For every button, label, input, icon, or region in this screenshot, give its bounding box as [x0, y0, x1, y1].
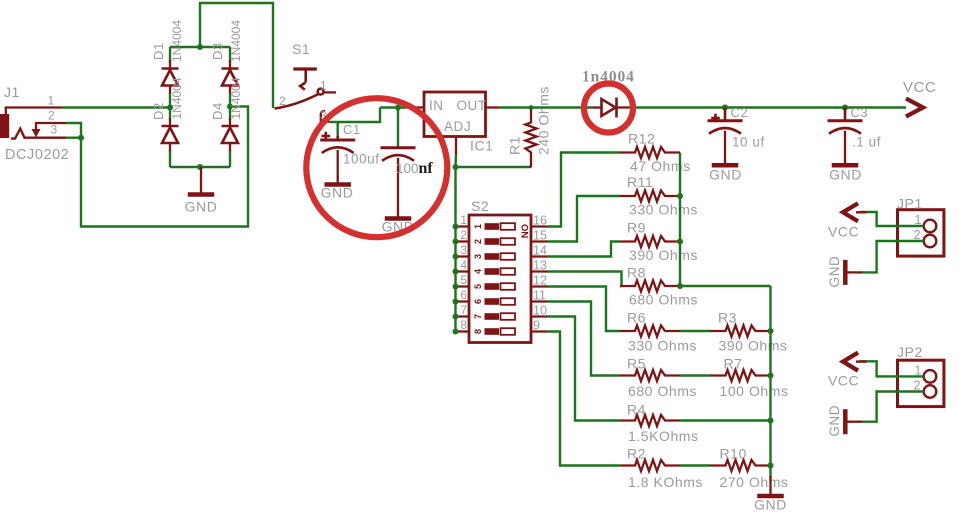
junction S2 pin 1 [453, 224, 459, 230]
DIP switch S2 box [469, 215, 531, 343]
svg-text:R10: R10 [720, 446, 747, 462]
J1 pin 2 [32, 123, 67, 137]
svg-text:5: 5 [460, 273, 467, 287]
wire S2 pin15 to R11 [548, 196, 621, 242]
JP2 pin 1 circle [924, 370, 937, 383]
diode D3 [222, 69, 239, 86]
svg-text:240 Ohms: 240 Ohms [536, 86, 552, 155]
svg-text:IC1: IC1 [470, 138, 493, 154]
svg-text:DCJ0202: DCJ0202 [5, 147, 69, 163]
svg-text:100nf: 100nf [396, 160, 433, 177]
svg-text:2: 2 [279, 94, 286, 108]
diode 1n4004 stubs [593, 106, 602, 108]
svg-text:GND: GND [827, 256, 842, 288]
S2 switch element 1 [473, 223, 515, 230]
S2 left pin 1 [456, 225, 470, 227]
J1 pin 3 [11, 129, 66, 139]
junction bridge left node [167, 105, 173, 111]
connector JP1 box [898, 210, 944, 256]
resistor R9 [620, 236, 680, 247]
resistor R6 [620, 325, 680, 336]
junction R11 right [677, 193, 683, 199]
svg-text:4: 4 [460, 258, 467, 272]
svg-text:1: 1 [320, 79, 327, 93]
S2 left pin 4 [456, 270, 470, 272]
IC1 OUT pin [486, 106, 501, 108]
ground below bridge [188, 167, 215, 195]
svg-text:C1: C1 [343, 122, 361, 137]
J1 pin 1 [6, 108, 63, 115]
wire to VCC [629, 106, 907, 108]
svg-text:1: 1 [48, 94, 55, 108]
junction bridge top node [197, 44, 203, 50]
ground JP2 [845, 409, 862, 434]
svg-text:10 uf: 10 uf [732, 135, 765, 150]
wire S2 pin9 to R2 [548, 332, 621, 466]
connector J1 body [0, 114, 9, 138]
svg-text:OUT: OUT [457, 98, 487, 113]
svg-text:ON: ON [519, 224, 530, 238]
wire [229, 151, 231, 167]
wire S1 pin3 to regulator input [330, 108, 380, 123]
ground below ladder [757, 476, 784, 496]
capacitor 100nf [381, 148, 416, 219]
junction R1 top [529, 105, 534, 110]
svg-text:16: 16 [533, 214, 547, 228]
annotation circle around capacitors [306, 98, 447, 237]
svg-text:1N4004: 1N4004 [229, 77, 243, 119]
svg-text:GND: GND [321, 185, 354, 201]
junction S2 pin 6 [453, 299, 459, 305]
svg-text:9: 9 [533, 319, 540, 333]
S2 right pin 12 [531, 285, 548, 287]
diode D3 lower stub [229, 86, 231, 95]
S2 switch element 8 [473, 328, 515, 335]
svg-text:GND: GND [829, 167, 862, 183]
wire J1 pin1 to bridge left node [63, 106, 170, 108]
junction R7 right [768, 373, 774, 379]
wire bridge top [170, 46, 230, 48]
diode D1 stub [169, 60, 171, 69]
svg-text:D3: D3 [210, 42, 225, 60]
diode D4 lower stub [229, 143, 231, 152]
wire [169, 47, 171, 62]
wire VCC to JP2 pin1 [860, 361, 924, 376]
junction bridge right node [227, 104, 233, 110]
svg-text:47 Ohms: 47 Ohms [630, 158, 691, 174]
wire ADJ to R1 bottom [456, 166, 532, 168]
svg-text:270 Ohms: 270 Ohms [720, 474, 789, 490]
wire bottom loop to bridge right node [81, 107, 248, 227]
svg-text:8: 8 [460, 318, 467, 332]
svg-text:4: 4 [473, 269, 483, 274]
svg-text:8: 8 [473, 329, 483, 334]
svg-text:JP1: JP1 [897, 196, 923, 212]
svg-text:GND: GND [827, 405, 842, 437]
wire S2 pin12 to R6 [548, 287, 621, 332]
VCC arrow JP2 [843, 353, 867, 371]
S2 right pin 16 [531, 225, 548, 227]
S2 switch element 6 [473, 298, 515, 305]
svg-text:R9: R9 [627, 220, 646, 236]
diode D2 stub [169, 118, 171, 126]
wire GND to JP1 pin2 [862, 241, 924, 272]
wire bridge top node to S1 pin2 [200, 3, 273, 108]
wire GND to JP2 pin2 [862, 392, 924, 422]
svg-text:12: 12 [533, 274, 547, 288]
wire [229, 47, 231, 62]
diode D3 stub [229, 60, 231, 69]
VCC arrow JP1 [843, 203, 867, 221]
svg-text:R8: R8 [627, 265, 646, 281]
S2 left pin 6 [456, 300, 470, 302]
resistor R7 [711, 370, 771, 381]
resistor R8 [620, 280, 680, 291]
resistor R3 [711, 325, 771, 336]
svg-text:D2: D2 [151, 102, 166, 120]
svg-text:GND: GND [754, 497, 787, 513]
wire [169, 93, 171, 119]
wire to IC1 IN [380, 106, 411, 108]
switch S1 pin 1 [324, 91, 337, 93]
svg-text:1N4004: 1N4004 [170, 77, 184, 119]
svg-text:.1 uf: .1 uf [852, 135, 881, 150]
wire S2 pin14 to R9 [548, 242, 621, 257]
svg-text:VCC: VCC [828, 224, 859, 240]
svg-text:VCC: VCC [828, 373, 859, 389]
svg-text:14: 14 [533, 244, 547, 258]
junction S2 pin 7 [453, 314, 459, 320]
svg-text:R6: R6 [627, 310, 646, 326]
junction J1 pins 2-3 [78, 135, 84, 141]
svg-text:7: 7 [460, 303, 467, 317]
S2 right pin 14 [531, 255, 548, 257]
junction R8 right [677, 283, 683, 289]
annotation circle around diode [584, 84, 633, 133]
svg-text:D4: D4 [210, 102, 225, 120]
wire [169, 151, 171, 167]
wire to 100nf cap [397, 108, 399, 147]
capacitor C3 [828, 108, 863, 166]
wire [229, 93, 231, 119]
wire ADJ bus to S2 left pins [454, 167, 456, 332]
svg-text:100uf: 100uf [343, 152, 380, 167]
svg-text:2: 2 [460, 228, 467, 242]
svg-text:1: 1 [473, 224, 483, 229]
wire S2 pin13 to R8 [548, 272, 622, 287]
svg-text:1N4004: 1N4004 [229, 20, 243, 62]
IC1 ADJ pin [455, 137, 457, 156]
junction R4 right [768, 418, 774, 424]
svg-text:2: 2 [473, 239, 483, 244]
wire R5 to R7 [680, 374, 711, 376]
switch S1 pin 3 [321, 111, 330, 122]
svg-text:IN: IN [429, 98, 444, 113]
svg-text:100 Ohms: 100 Ohms [720, 383, 789, 399]
resistor R1 [525, 108, 536, 168]
junction bridge bottom node [197, 164, 203, 170]
svg-text:R5: R5 [627, 356, 646, 372]
svg-text:390 Ohms: 390 Ohms [719, 338, 788, 354]
wire OUT net [501, 106, 594, 108]
junction R3 right [768, 328, 774, 334]
op-amp U1 regulator IC1 box [424, 92, 486, 137]
resistor R5 [620, 370, 680, 381]
JP1 pin 2 circle [924, 235, 937, 248]
svg-text:JP2: JP2 [897, 344, 923, 360]
svg-text:S2: S2 [471, 198, 489, 214]
svg-text:R12: R12 [628, 131, 655, 147]
svg-text:330 Ohms: 330 Ohms [628, 338, 697, 354]
svg-text:C2: C2 [731, 105, 749, 120]
svg-text:5: 5 [473, 284, 483, 289]
svg-text:ADJ: ADJ [444, 119, 471, 134]
svg-text:R3: R3 [718, 310, 737, 326]
svg-text:3: 3 [473, 254, 483, 259]
svg-text:S1: S1 [292, 41, 310, 57]
svg-text:7: 7 [473, 314, 483, 319]
JP1 pin 1 circle [924, 220, 937, 233]
S2 right pin 15 [531, 240, 548, 242]
VCC arrow main [906, 99, 923, 117]
S2 right pin 13 [531, 270, 548, 272]
capacitor C1 [320, 132, 355, 185]
S2 switch element 4 [473, 268, 515, 275]
resistor R2 [620, 460, 680, 471]
svg-text:GND: GND [709, 167, 742, 183]
S2 left pin 5 [456, 285, 470, 287]
junction 100nf tap [395, 105, 401, 111]
wire left bus [679, 153, 681, 287]
wire S2 pin10 to R4 [548, 317, 621, 421]
JP2 pin 2 circle [924, 385, 937, 398]
wire right bus [769, 286, 771, 478]
wire S2 pin11 to R5 [548, 302, 621, 376]
svg-text:R2: R2 [627, 446, 646, 462]
wire R8 row to right bus [680, 285, 771, 287]
junction C2 tap [722, 105, 728, 111]
S2 switch element 3 [473, 253, 515, 260]
wire J1 pin3 [66, 136, 81, 138]
ground JP1 [845, 260, 862, 285]
wire J1 pin2 down [66, 123, 81, 138]
svg-text:J1: J1 [4, 84, 20, 100]
svg-text:6: 6 [473, 299, 483, 304]
wire R4 to right bus [680, 419, 771, 421]
svg-text:GND: GND [185, 199, 218, 215]
diode 1n4004 [602, 98, 617, 118]
svg-text:1: 1 [460, 213, 467, 227]
wire VCC to JP1 pin1 [860, 212, 924, 226]
svg-text:2: 2 [48, 109, 55, 123]
svg-text:390 Ohms: 390 Ohms [629, 247, 698, 263]
svg-text:D1: D1 [151, 42, 166, 60]
svg-text:1N4004: 1N4004 [170, 20, 184, 62]
wire bridge bottom [170, 166, 230, 168]
S2 switch element 2 [473, 238, 515, 245]
svg-text:680 Ohms: 680 Ohms [628, 383, 697, 399]
wire ADJ down [454, 154, 457, 167]
junction S2 pin 5 [453, 284, 459, 290]
wire R6 to R3 [680, 330, 711, 332]
S2 left pin 7 [456, 315, 470, 317]
svg-text:6: 6 [460, 288, 467, 302]
diode D2 [162, 126, 179, 143]
diode D2 lower stub [169, 143, 171, 152]
switch S1 actuator [293, 69, 316, 90]
resistor R12 [620, 147, 680, 158]
diode D4 [222, 126, 239, 143]
junction R10 right [768, 463, 774, 469]
junction S2 pin 4 [453, 269, 459, 275]
S2 left pin 8 [456, 330, 470, 332]
svg-text:1.5KOhms: 1.5KOhms [628, 428, 699, 444]
svg-text:330 Ohms: 330 Ohms [629, 202, 698, 218]
junction ADJ node [453, 164, 459, 170]
wire S2 pin16 to R12 [548, 153, 621, 227]
switch S1 lever [275, 89, 324, 109]
junction C3 tap [842, 105, 848, 111]
S2 right pin 11 [531, 300, 548, 302]
svg-text:3: 3 [460, 243, 467, 257]
svg-text:C3: C3 [851, 105, 869, 120]
svg-text:R11: R11 [627, 174, 653, 190]
svg-text:15: 15 [533, 229, 547, 243]
svg-text:11: 11 [533, 289, 546, 303]
S2 switch element 5 [473, 283, 515, 290]
resistor R10 [711, 460, 771, 471]
wire to C1 [337, 122, 339, 137]
diode D1 [162, 69, 179, 86]
S2 switch element 7 [473, 313, 515, 320]
svg-text:3: 3 [51, 123, 58, 137]
junction S2 pin 8 [453, 329, 459, 335]
diode D4 stub [229, 118, 231, 126]
junction S2 pin 2 [453, 239, 459, 245]
IC1 IN pin [411, 106, 425, 108]
S2 right pin 9 [531, 330, 548, 332]
S2 left pin 2 [456, 240, 470, 242]
svg-text:VCC: VCC [903, 79, 936, 96]
S2 left pin 3 [456, 255, 470, 257]
resistor R11 [620, 190, 680, 201]
svg-text:1.8 KOhms: 1.8 KOhms [628, 474, 703, 490]
resistor R4 [620, 415, 680, 426]
connector JP2 box [898, 360, 944, 406]
svg-text:R7: R7 [724, 356, 743, 372]
junction R9 right [677, 239, 683, 245]
wire R2 to R10 [680, 464, 711, 466]
svg-text:R1: R1 [507, 136, 523, 155]
capacitor C2 [708, 108, 743, 166]
diode D1 lower stub [169, 86, 171, 95]
junction S2 pin 3 [453, 254, 459, 260]
svg-text:10: 10 [533, 304, 547, 318]
S2 right pin 10 [531, 315, 548, 317]
svg-text:R4: R4 [627, 402, 646, 418]
svg-text:13: 13 [533, 259, 547, 273]
svg-text:680 Ohms: 680 Ohms [629, 292, 698, 308]
